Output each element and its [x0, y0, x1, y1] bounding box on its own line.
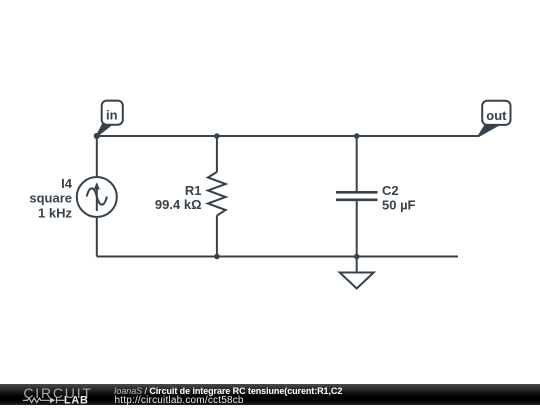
junction dot at R1 top — [214, 133, 220, 139]
svg-text:out: out — [486, 108, 507, 123]
footer title line — [114, 386, 342, 396]
footer url line — [115, 395, 244, 406]
CircuitLab logo — [0, 384, 100, 405]
junction dot at node in — [94, 133, 100, 139]
junction dot at C2 bottom / ground node — [354, 254, 360, 260]
wire: left vertical from node in down to I4 top terminal — [96, 136, 98, 177]
svg-text:I4: I4 — [61, 176, 73, 191]
capacitor C2 top plate — [336, 191, 378, 194]
node flag in box — [102, 101, 123, 125]
svg-text:99.4 kΩ: 99.4 kΩ — [155, 197, 202, 212]
current source I4 arrow shaft — [96, 188, 98, 211]
ground symbol triangle — [340, 273, 374, 289]
node flag out pointer tail — [479, 125, 499, 136]
wire: R1 top lead — [216, 136, 218, 172]
current source I4 arrow head — [94, 182, 100, 189]
wire: top horizontal net from node in to out flag — [97, 135, 479, 137]
svg-text:R1: R1 — [185, 183, 202, 198]
resistor R1 zigzag body — [208, 172, 226, 216]
svg-text:50 µF: 50 µF — [382, 198, 416, 213]
junction dot at C2 top — [354, 133, 360, 139]
node flag out box — [482, 101, 510, 125]
capacitor C2 bottom plate — [336, 199, 378, 202]
svg-text:C2: C2 — [382, 183, 399, 198]
wire: ground stem — [356, 257, 358, 273]
current source I4 circle — [77, 177, 117, 217]
node flag in pointer tail — [97, 124, 113, 136]
wire: C2 top lead — [356, 136, 358, 191]
svg-text:in: in — [106, 107, 118, 122]
junction dot at R1 bottom — [214, 254, 220, 260]
wire: C2 bottom lead — [356, 201, 358, 257]
current source I4 sine wave — [87, 188, 107, 204]
wire: left vertical from I4 bottom terminal to bottom net — [96, 217, 98, 257]
wire: R1 bottom lead — [216, 216, 218, 257]
svg-text:1 kHz: 1 kHz — [38, 206, 72, 221]
svg-text:square: square — [29, 191, 72, 206]
svg-text:LAB: LAB — [64, 395, 89, 405]
footer bar — [0, 384, 540, 405]
wire: bottom horizontal ground net — [97, 256, 458, 258]
